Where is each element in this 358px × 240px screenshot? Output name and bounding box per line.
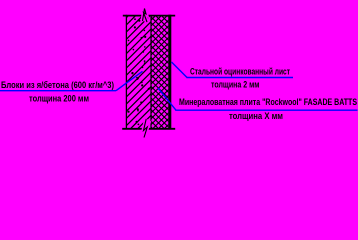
bottom break zigzag — [144, 119, 148, 138]
wall left outline — [125, 15, 127, 130]
leader shelf: concrete blocks note — [0, 90, 116, 92]
concrete aggregate dots — [127, 18, 149, 126]
top break zigzag — [143, 9, 148, 23]
leader line to concrete blocks — [116, 71, 143, 90]
leader shelf: mineral wool note — [175, 109, 357, 111]
svg-text:Минераловатная плита "Rockwool: Минераловатная плита "Rockwool" FASADE B… — [179, 97, 357, 107]
concrete block layer hatch — [120, 0, 156, 154]
svg-text:толщина 2 мм: толщина 2 мм — [211, 79, 260, 89]
top break zigzag halo — [143, 9, 148, 23]
wall top cut line — [123, 15, 175, 17]
mineral wool layer cross-hatch — [145, 0, 175, 154]
leader line to steel sheet — [172, 62, 188, 78]
svg-text:толщина 200 мм: толщина 200 мм — [29, 93, 89, 103]
wall bottom cut line — [122, 128, 175, 130]
leader line to mineral wool — [158, 88, 176, 110]
bottom break zigzag halo — [144, 119, 148, 138]
svg-text:Стальной оцинкованный лист: Стальной оцинкованный лист — [190, 66, 290, 76]
leader shelf: steel sheet note — [187, 77, 294, 79]
layer divider line — [150, 16, 152, 129]
steel sheet (thick line) — [168, 15, 171, 130]
svg-text:толщина X мм: толщина X мм — [229, 111, 283, 121]
svg-text:Блоки из я/бетона (600 кг/м^3): Блоки из я/бетона (600 кг/м^3) — [1, 80, 114, 90]
